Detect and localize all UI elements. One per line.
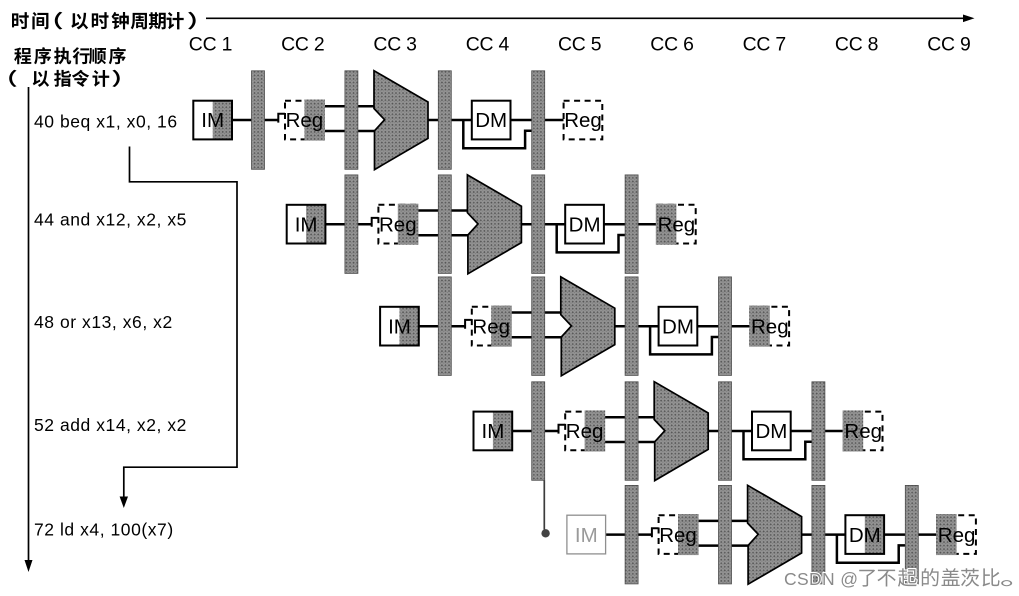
register read Reg (row 1)	[285, 100, 325, 141]
pipeline register bar 2 (row 5)	[719, 485, 732, 584]
svg-text:Reg: Reg	[472, 315, 510, 338]
pipeline register bar 3 (row 1)	[438, 71, 451, 170]
pipeline register bar 2 (row 4)	[625, 382, 638, 481]
wire entry tab at Reg (row 4)	[559, 425, 567, 434]
svg-text:DM: DM	[755, 420, 787, 443]
wire DM to Reg writeback (row 2)	[604, 223, 657, 226]
instruction memory IM (row 4)	[474, 412, 513, 451]
svg-text:Reg: Reg	[566, 420, 604, 443]
wire DM to Reg writeback (row 3)	[697, 325, 750, 328]
data memory DM (row 3)	[659, 307, 698, 346]
pipeline register bar 2 (row 3)	[532, 277, 545, 376]
svg-text:CC 8: CC 8	[835, 34, 878, 56]
pipeline register bar 4 (row 2)	[625, 175, 638, 274]
wire DM to Reg writeback (row 5)	[884, 533, 937, 536]
wire IM to Reg (row 1)	[232, 119, 279, 122]
pipeline register bar 3 (row 2)	[532, 175, 545, 274]
svg-text:Reg: Reg	[844, 420, 882, 443]
svg-text:CC 6: CC 6	[650, 34, 693, 56]
pipeline register bar 4 (row 5)	[905, 485, 918, 584]
instruction memory IM (row 3)	[380, 307, 419, 346]
wire Reg to ALU upper (row 3)	[511, 311, 564, 314]
svg-text:DM: DM	[849, 524, 881, 547]
wire ALU to DM (row 2)	[521, 223, 565, 226]
register writeback Reg (row 3)	[749, 306, 789, 347]
wire Reg to ALU upper (row 4)	[604, 416, 657, 419]
time axis arrow	[206, 15, 975, 23]
instruction memory IM (row 1)	[193, 101, 232, 140]
ALU (row 5)	[748, 485, 802, 584]
data memory DM (row 5)	[845, 515, 884, 554]
wire ALU to DM (row 5)	[802, 533, 846, 536]
svg-text:IM: IM	[201, 109, 224, 132]
branch decision line with bubble dot	[541, 481, 549, 538]
data memory DM (row 4)	[752, 412, 791, 451]
wire ALU to DM (row 3)	[615, 325, 659, 328]
pipeline register bar 1 (row 1)	[252, 71, 265, 170]
svg-text:CC 5: CC 5	[558, 34, 601, 56]
wire IM to Reg (row 5)	[606, 533, 653, 536]
title time-axis label	[12, 12, 196, 30]
svg-text:IM: IM	[295, 213, 318, 236]
svg-text:IM: IM	[482, 420, 505, 443]
wire Reg to ALU lower (row 2)	[417, 234, 470, 237]
branch taken control path	[120, 147, 237, 509]
svg-text:IM: IM	[388, 315, 411, 338]
wire entry tab at Reg (row 5)	[652, 528, 660, 537]
wire Reg to ALU lower (row 3)	[511, 336, 564, 339]
wire DM to Reg writeback (row 4)	[791, 430, 844, 433]
svg-text:Reg: Reg	[658, 213, 696, 236]
pipeline register bar 1 (row 3)	[438, 277, 451, 376]
svg-text:Reg: Reg	[938, 524, 976, 547]
pipeline register bar 4 (row 3)	[719, 277, 732, 376]
ALU (row 4)	[654, 382, 708, 481]
wire Reg to ALU upper (row 1)	[324, 105, 377, 108]
wire IM to Reg (row 3)	[419, 325, 466, 328]
pipeline register bar 1 (row 2)	[345, 175, 358, 274]
bypass wire under DM (row 3)	[650, 326, 720, 354]
register read Reg (row 4)	[565, 410, 605, 451]
register writeback Reg (row 4)	[843, 410, 883, 451]
wire Reg to ALU upper (row 2)	[417, 209, 470, 212]
data memory DM (row 1)	[472, 101, 511, 140]
pipeline register bar 2 (row 1)	[345, 71, 358, 170]
svg-text:DM: DM	[662, 315, 694, 338]
svg-text:Reg: Reg	[564, 109, 602, 132]
pipeline register bar 1 (row 4)	[532, 382, 545, 481]
register read Reg (row 2)	[378, 204, 418, 245]
wire entry tab at Reg (row 1)	[278, 114, 286, 123]
wire entry tab at Reg (row 2)	[372, 218, 380, 227]
pipeline register bar 3 (row 3)	[625, 277, 638, 376]
svg-text:Reg: Reg	[379, 213, 417, 236]
register read Reg (row 3)	[472, 306, 512, 347]
wire Reg to ALU upper (row 5)	[697, 520, 750, 523]
pipeline register bar 3 (row 5)	[812, 485, 825, 584]
svg-text:Reg: Reg	[659, 524, 697, 547]
pipeline register bar 4 (row 1)	[532, 71, 545, 170]
program order arrow	[25, 87, 33, 572]
register read Reg (row 5)	[659, 514, 699, 555]
svg-text:40 beq x1, x0, 16: 40 beq x1, x0, 16	[34, 112, 178, 132]
program order label line1	[14, 47, 125, 64]
ALU (row 1)	[374, 71, 428, 170]
data memory DM (row 2)	[565, 205, 604, 244]
watermark CJK	[859, 568, 1012, 587]
pipeline register bar 4 (row 4)	[812, 382, 825, 481]
wire IM to Reg (row 4)	[512, 430, 559, 433]
svg-text:CC 9: CC 9	[927, 34, 970, 56]
pipeline register bar 3 (row 4)	[719, 382, 732, 481]
wire DM to Reg writeback (row 1)	[511, 119, 564, 122]
svg-text:CSDN @: CSDN @	[784, 569, 858, 589]
bypass wire under DM (row 1)	[463, 120, 533, 148]
svg-text:CC 3: CC 3	[373, 34, 416, 56]
ALU (row 2)	[467, 175, 521, 274]
wire ALU to DM (row 1)	[428, 119, 472, 122]
svg-text:44 and x12, x2, x5: 44 and x12, x2, x5	[34, 209, 187, 229]
instruction memory IM (row 2)	[287, 205, 326, 244]
wire IM to Reg (row 2)	[325, 223, 372, 226]
svg-text:CC 7: CC 7	[743, 34, 786, 56]
pipeline register bar 1 (row 5)	[625, 485, 638, 584]
pipeline register bar 2 (row 2)	[438, 175, 451, 274]
svg-text:DM: DM	[475, 109, 507, 132]
svg-text:52 add x14, x2, x2: 52 add x14, x2, x2	[34, 415, 187, 435]
bypass wire under DM (row 2)	[557, 224, 627, 252]
bypass wire under DM (row 4)	[744, 431, 814, 459]
wire Reg to ALU lower (row 4)	[604, 441, 657, 444]
svg-text:72 ld x4, 100(x7): 72 ld x4, 100(x7)	[34, 520, 174, 540]
register writeback Reg (row 2)	[656, 204, 696, 245]
register writeback Reg (row 1)	[564, 101, 603, 140]
wire Reg to ALU lower (row 1)	[324, 130, 377, 133]
svg-text:Reg: Reg	[286, 109, 324, 132]
svg-text:CC 1: CC 1	[189, 34, 232, 56]
svg-text:DM: DM	[569, 213, 601, 236]
wire entry tab at Reg (row 3)	[465, 320, 473, 329]
svg-text:Reg: Reg	[751, 315, 789, 338]
bypass wire under DM (row 5)	[837, 535, 907, 563]
svg-text:48 or x13, x6, x2: 48 or x13, x6, x2	[34, 312, 173, 332]
ALU (row 3)	[561, 277, 615, 376]
svg-text:CC 2: CC 2	[281, 34, 324, 56]
instruction memory IM (row 5)	[567, 515, 606, 554]
program order label line2	[9, 70, 120, 87]
svg-text:IM: IM	[575, 524, 598, 547]
wire Reg to ALU lower (row 5)	[697, 544, 750, 547]
register writeback Reg (row 5)	[936, 514, 976, 555]
wire ALU to DM (row 4)	[708, 430, 752, 433]
svg-text:CC 4: CC 4	[466, 34, 510, 56]
